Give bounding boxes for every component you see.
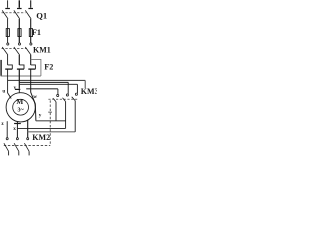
switch Q1 pole 2 blade: [14, 10, 20, 19]
wire L1 to fuse: [7, 19, 9, 43]
KM2 pole 3 bottom stub: [28, 151, 30, 155]
svg-text:y: y: [39, 113, 42, 119]
F2 heater phase 2: [19, 65, 24, 69]
svg-text:Q1: Q1: [36, 10, 47, 20]
KM3 pole 1 circle: [57, 94, 59, 96]
wire to KM3 pole3 bottom: [28, 131, 75, 133]
wire L3 KM1 to F2: [30, 55, 32, 65]
motor outer circle: [6, 93, 35, 122]
wire motor v feed: [18, 69, 20, 89]
motor v terminal bar: [15, 89, 20, 90]
svg-text:u: u: [2, 89, 5, 95]
wire x junction to KM3 pole2 bottom: [17, 127, 65, 129]
wire L2 to fuse: [18, 19, 20, 43]
wire L3 to fuse: [30, 19, 32, 43]
wire y to KM3 delta link: [36, 120, 66, 122]
bus wire y82 from L2: [19, 81, 68, 83]
KM3 pole 1 riser: [57, 89, 59, 95]
bus wire y80 from L1: [8, 79, 86, 81]
KM2 pole 3 circle: [27, 138, 29, 140]
svg-text:KM3: KM3: [81, 87, 97, 96]
KM1 linkage dashed line: [2, 48, 28, 50]
KM3 pole 3 riser: [76, 84, 78, 93]
KM2 pole 2 blade: [14, 143, 19, 151]
fuse F1 phase 3: [29, 29, 32, 37]
KM2 linkage dashed line: [4, 144, 51, 146]
KM3 pole 3 circle: [75, 93, 77, 95]
KM3 pole 1 bottom wire: [55, 102, 57, 121]
wire motor u feed: [8, 69, 12, 98]
svg-text:x: x: [13, 126, 16, 132]
KM2 pole 3 blade: [24, 143, 29, 151]
bus wire y89: [26, 88, 58, 90]
motor x terminal wire: [16, 121, 18, 137]
KM3 pole 2 bottom wire: [65, 102, 67, 129]
svg-text:KM2: KM2: [32, 133, 50, 142]
KM3 pole 1 blade: [53, 98, 56, 102]
contactor KM1 pole 1 blade: [2, 47, 8, 55]
wire L1 KM1 to F2: [7, 55, 9, 65]
switch Q1 pole 1 fixed contact: [5, 8, 10, 9]
fuse F1 phase 1: [6, 29, 9, 37]
wire L2 KM1 to F2: [18, 55, 20, 65]
KM2 pole 1 circle: [6, 138, 8, 140]
tap wire from L3 down to bus: [31, 59, 41, 76]
KM2 pole 1 bottom stub: [8, 151, 10, 155]
svg-text:w: w: [33, 94, 37, 100]
KM2 pole 2 circle: [16, 138, 18, 140]
KM3 pole 3 bottom wire: [74, 101, 76, 132]
interlock tick: [48, 111, 52, 113]
KM3 pole 3 blade: [72, 97, 76, 101]
motor z terminal wire: [6, 121, 8, 138]
wire L3 top: [30, 0, 32, 8]
bus wire y84: [19, 83, 77, 85]
svg-text:M: M: [16, 97, 23, 106]
riser at right end of y80 bus: [84, 80, 86, 88]
KM3 pole 2 blade: [63, 98, 66, 102]
switch Q1 pole 1 blade: [2, 10, 8, 19]
wire L2 top: [18, 0, 20, 8]
svg-text:3~: 3~: [18, 108, 25, 114]
svg-text:KM1: KM1: [33, 45, 51, 54]
svg-text:v: v: [14, 85, 17, 91]
contactor KM1 pole 2 blade: [14, 47, 20, 55]
wire motor w feed: [31, 69, 36, 121]
svg-text:z: z: [1, 121, 4, 127]
switch Q1 pole 2 fixed contact: [17, 8, 22, 9]
contactor KM1 pole 3 blade: [25, 47, 31, 55]
F2 left bracket bar: [0, 60, 2, 76]
Q1 linkage dashed line: [2, 12, 26, 14]
bus wire y76: [1, 75, 41, 77]
KM3 pole 2 riser: [67, 82, 69, 94]
svg-text:F1: F1: [32, 28, 41, 37]
KM2 pole 1 blade: [4, 143, 9, 151]
motor x terminal bar: [14, 123, 21, 124]
contactor KM1 pole 3 circle: [30, 43, 32, 45]
interlock dashed line KM3-KM2: [49, 100, 51, 145]
motor inner circle: [13, 99, 29, 115]
wire L1 top: [7, 0, 9, 8]
switch Q1 pole 3 blade: [25, 10, 31, 19]
KM3 pole 2 circle: [66, 94, 68, 96]
fuse F1 phase 2: [18, 29, 21, 37]
contactor KM1 pole 2 circle: [18, 43, 20, 45]
motor third winding end wire: [27, 120, 29, 138]
switch Q1 pole 3 fixed contact: [28, 8, 33, 9]
F2 heater phase 3: [31, 65, 36, 69]
svg-text:F2: F2: [44, 62, 53, 71]
F2 heater phase 1: [8, 65, 13, 69]
KM3 linkage dashed line: [48, 98, 78, 100]
KM2 pole 2 bottom stub: [18, 151, 20, 155]
contactor KM1 pole 1 circle: [7, 43, 9, 45]
